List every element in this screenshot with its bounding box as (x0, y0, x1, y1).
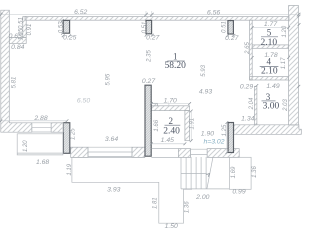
svg-text:3: 3 (266, 92, 271, 102)
wall band Q segment right (to landing) (207, 149, 239, 158)
wall room 5 bottom (252, 45, 288, 48)
svg-text:1.50: 1.50 (165, 223, 178, 230)
column A ticks (61, 19, 71, 37)
dim line 1.25 F (226, 123, 228, 153)
svg-text:4.93: 4.93 (199, 89, 212, 96)
svg-text:1.90: 1.90 (201, 131, 214, 138)
svg-text:0.51: 0.51 (222, 21, 228, 33)
svg-text:1: 1 (173, 51, 178, 61)
svg-text:0.27: 0.27 (142, 78, 155, 85)
wall band below room 3 (234, 125, 301, 135)
column E (145, 85, 151, 156)
svg-text:0.29: 0.29 (240, 84, 253, 91)
svg-text:2.10: 2.10 (261, 67, 278, 77)
svg-text:5.95: 5.95 (106, 73, 112, 85)
svg-text:2.10: 2.10 (260, 38, 277, 48)
room 2 underline (165, 124, 181, 126)
landing box (229, 157, 251, 189)
wall rooms 5-4 left (250, 20, 253, 80)
wall room 3 left (254, 86, 257, 125)
svg-text:2: 2 (168, 116, 173, 126)
svg-text:1.25: 1.25 (70, 128, 76, 140)
wall top-left step horizontal (9, 38, 26, 44)
svg-text:58.20: 58.20 (165, 61, 187, 71)
dim line 1.70 (151, 103, 189, 106)
svg-text:3.00: 3.00 (263, 102, 280, 112)
column A (63, 20, 69, 33)
svg-text:1.20: 1.20 (282, 25, 288, 37)
svg-text:1.36: 1.36 (184, 201, 190, 213)
top dimension line (1, 11, 299, 17)
wall room 4 bottom (250, 77, 289, 80)
wall band Q segment below room 2 right (178, 149, 190, 158)
svg-text:1.66: 1.66 (154, 119, 160, 131)
dim ticks room 3 top (255, 84, 300, 88)
top dimension ticks (0, 13, 300, 17)
svg-text:2.00: 2.00 (195, 194, 209, 201)
stairs cut diagonal (207, 157, 213, 189)
room 3 underline (262, 100, 276, 102)
room 5 dim line (252, 27, 288, 29)
svg-text:1.20: 1.20 (23, 140, 29, 152)
svg-text:2.04: 2.04 (249, 97, 255, 110)
svg-text:4: 4 (266, 57, 271, 67)
svg-text:6.50: 6.50 (77, 98, 90, 105)
svg-text:3.93: 3.93 (107, 187, 120, 194)
lower corridor outline (72, 157, 192, 223)
wall left (with bottom foot) (1, 10, 32, 132)
svg-text:0.84: 0.84 (11, 44, 24, 51)
room 4 dim line ticks (251, 56, 290, 59)
svg-text:1.34: 1.34 (241, 116, 254, 123)
svg-text:1.49: 1.49 (266, 83, 279, 90)
column D (63, 123, 69, 154)
stair doorway (191, 149, 208, 158)
room 4 underline (260, 65, 279, 67)
stairs bottom edge (181, 188, 229, 190)
dim line 2.88 (1, 120, 67, 122)
svg-text:1.81: 1.81 (152, 197, 158, 209)
svg-text:5: 5 (267, 27, 272, 37)
opening below room 2 (151, 149, 178, 158)
svg-text:0.65: 0.65 (9, 33, 22, 40)
svg-text:2.35: 2.35 (146, 50, 152, 63)
svg-text:1.68: 1.68 (36, 159, 49, 166)
svg-text:0.27: 0.27 (146, 35, 159, 42)
svg-text:1.91: 1.91 (190, 118, 196, 130)
svg-text:0.51: 0.51 (142, 22, 148, 34)
svg-text:1.17: 1.17 (281, 57, 287, 69)
column C (228, 21, 234, 34)
wall cap right of column E (151, 103, 157, 106)
column B (146, 20, 152, 33)
svg-text:0.53: 0.53 (59, 21, 65, 33)
small room S outline (17, 134, 63, 155)
svg-text:2.40: 2.40 (163, 127, 180, 137)
column F (228, 123, 233, 153)
column B ticks (145, 34, 154, 37)
window mid band (71, 147, 145, 157)
wall right (289, 6, 299, 126)
wall top (25, 17, 289, 21)
svg-text:1.36: 1.36 (252, 166, 258, 178)
svg-text:2.65: 2.65 (245, 42, 251, 55)
stairs (181, 157, 207, 189)
svg-text:0.99: 0.99 (232, 188, 245, 195)
column C ticks (227, 34, 236, 37)
svg-text:1.45: 1.45 (161, 137, 174, 144)
svg-text:h=3.02: h=3.02 (204, 139, 225, 146)
wall room 2 top (151, 106, 189, 111)
wall top-left step vertical (23, 17, 26, 38)
svg-text:1.19: 1.19 (67, 163, 73, 175)
svg-text:5.93: 5.93 (201, 64, 207, 76)
svg-text:0.27: 0.27 (225, 35, 238, 42)
svg-text:5.81: 5.81 (11, 77, 17, 89)
wall segment right of lower-left window (51, 123, 63, 132)
ticks outside right wall (298, 15, 301, 26)
dim line 1.45 (151, 143, 185, 145)
room 5 underline (261, 36, 278, 38)
svg-text:0.51: 0.51 (18, 17, 24, 29)
wall room 2 right (185, 111, 190, 141)
svg-text:6.56: 6.56 (207, 10, 220, 17)
wall band segment left of column E (132, 147, 145, 157)
svg-text:2.03: 2.03 (283, 99, 289, 112)
wall band segment right of column D (71, 147, 88, 157)
svg-text:6.52: 6.52 (74, 9, 87, 16)
svg-text:1.69: 1.69 (231, 166, 237, 178)
svg-text:3.64: 3.64 (105, 136, 118, 143)
window lower-left (32, 123, 51, 132)
dim line 1.91 (190, 111, 192, 141)
room 1 underline (167, 60, 184, 62)
stairs arrow barb (206, 173, 209, 176)
svg-text:0.91: 0.91 (27, 24, 33, 36)
